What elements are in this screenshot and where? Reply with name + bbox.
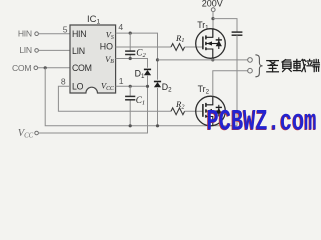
wire Vcc rail bottom then up to pin 1 row: [38, 86, 147, 133]
resistor R1: [171, 33, 185, 51]
transistor Tr1: [196, 20, 226, 58]
node VB-C2 junction: [129, 57, 132, 60]
wire COM to pin: [38, 67, 70, 69]
capacitor C2: [125, 51, 135, 54]
char 負: [282, 60, 286, 62]
wire branch to filter capacitor: [213, 19, 237, 32]
svg-text:PCBWZ.com: PCBWZ.com: [207, 106, 317, 140]
svg-text:HIN: HIN: [18, 29, 32, 39]
wire COM column down: [45, 68, 237, 126]
node 200V supply: [202, 0, 223, 12]
node 200V branch junction: [211, 17, 214, 20]
wire VB row to D1 column: [116, 59, 148, 68]
wire R2 to Tr2 gate: [185, 110, 203, 112]
svg-text:200V: 200V: [202, 0, 223, 8]
terminal output upper: [248, 58, 253, 63]
char 至: [267, 60, 279, 62]
terminal LIN: [19, 45, 38, 55]
node C1 top junction: [129, 85, 132, 88]
diode D2: [154, 82, 172, 94]
wire C1 column: [129, 86, 131, 96]
wire LO pin8 loop to R2: [58, 86, 171, 111]
node D2-COM rail junction: [156, 124, 159, 127]
capacitor C1: [125, 96, 135, 99]
terminal COM: [12, 63, 38, 73]
wire C2 column: [129, 33, 131, 51]
wire Tr2 drain up to output 2: [213, 71, 248, 97]
svg-text:COM: COM: [72, 63, 92, 73]
node D1-Vcc junction: [146, 85, 149, 88]
wire LIN to pin 6: [38, 49, 70, 51]
svg-text:8: 8: [61, 77, 66, 87]
node Vs-C2 junction: [129, 31, 132, 34]
svg-text:LO: LO: [72, 82, 84, 92]
node Tr1 source junction: [211, 58, 214, 61]
op-amp IC1 body: [70, 14, 116, 93]
svg-text:4: 4: [118, 22, 123, 32]
wire R1 to Tr1 gate: [185, 46, 203, 48]
brace to load: [255, 55, 262, 77]
char 載: [294, 60, 301, 62]
terminal HIN: [18, 29, 39, 39]
wire Tr1 source to output node: [212, 58, 214, 60]
svg-text:5: 5: [63, 25, 68, 35]
svg-text:HO: HO: [100, 41, 113, 51]
wire Vs row pin4 to D2 column, down to COM rail: [116, 33, 158, 80]
node label: to load terminal (至負載端): [267, 59, 320, 71]
capacitor C3 (bus filter): [232, 32, 243, 35]
resistor R2: [171, 99, 185, 115]
svg-text:COM: COM: [12, 63, 31, 73]
char 端: [307, 60, 312, 62]
wire Vs link to source and output 1: [158, 59, 248, 61]
terminal output lower: [248, 68, 253, 73]
wire HO row to R1: [116, 46, 171, 48]
svg-text:HIN: HIN: [72, 29, 86, 39]
svg-text:LIN: LIN: [19, 45, 32, 55]
svg-text:LIN: LIN: [72, 46, 85, 56]
transistor Tr2: [196, 84, 226, 126]
diode D1: [135, 68, 152, 79]
svg-text:1: 1: [119, 76, 124, 86]
wire filter capacitor down to COM rail: [236, 35, 238, 126]
terminal Vcc: [18, 128, 39, 140]
node COM junction: [44, 66, 47, 69]
node C1-COM rail junction: [129, 124, 132, 127]
wire 200V down to Tr1 drain: [212, 12, 214, 38]
node Vs column junction: [156, 58, 159, 61]
wire HIN to pin 5: [38, 33, 70, 35]
wire pin1 row: [116, 85, 148, 87]
